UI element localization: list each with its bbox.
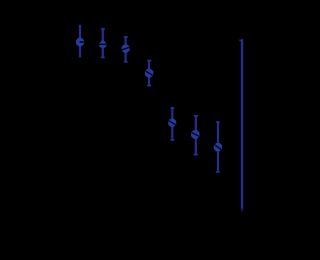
data point 2 error bar bbox=[101, 28, 105, 58]
data point 5 marker bbox=[168, 119, 176, 127]
data point 7 marker bbox=[214, 143, 222, 151]
data point 3 error bar bbox=[124, 36, 128, 63]
data point 6 marker bbox=[191, 130, 199, 138]
data point 5 error bar bbox=[171, 107, 175, 141]
data point 8 error bar (long) bbox=[239, 39, 243, 211]
data point 4 marker bbox=[145, 69, 153, 77]
data point 1 marker bbox=[76, 38, 85, 46]
data point 7 error bar bbox=[216, 121, 220, 173]
data point 2 marker bbox=[99, 39, 107, 48]
data point 1 error bar bbox=[79, 25, 81, 58]
data point 3 marker bbox=[121, 45, 129, 53]
data point 6 error bar bbox=[194, 115, 198, 156]
data point 4 error bar bbox=[147, 60, 152, 87]
